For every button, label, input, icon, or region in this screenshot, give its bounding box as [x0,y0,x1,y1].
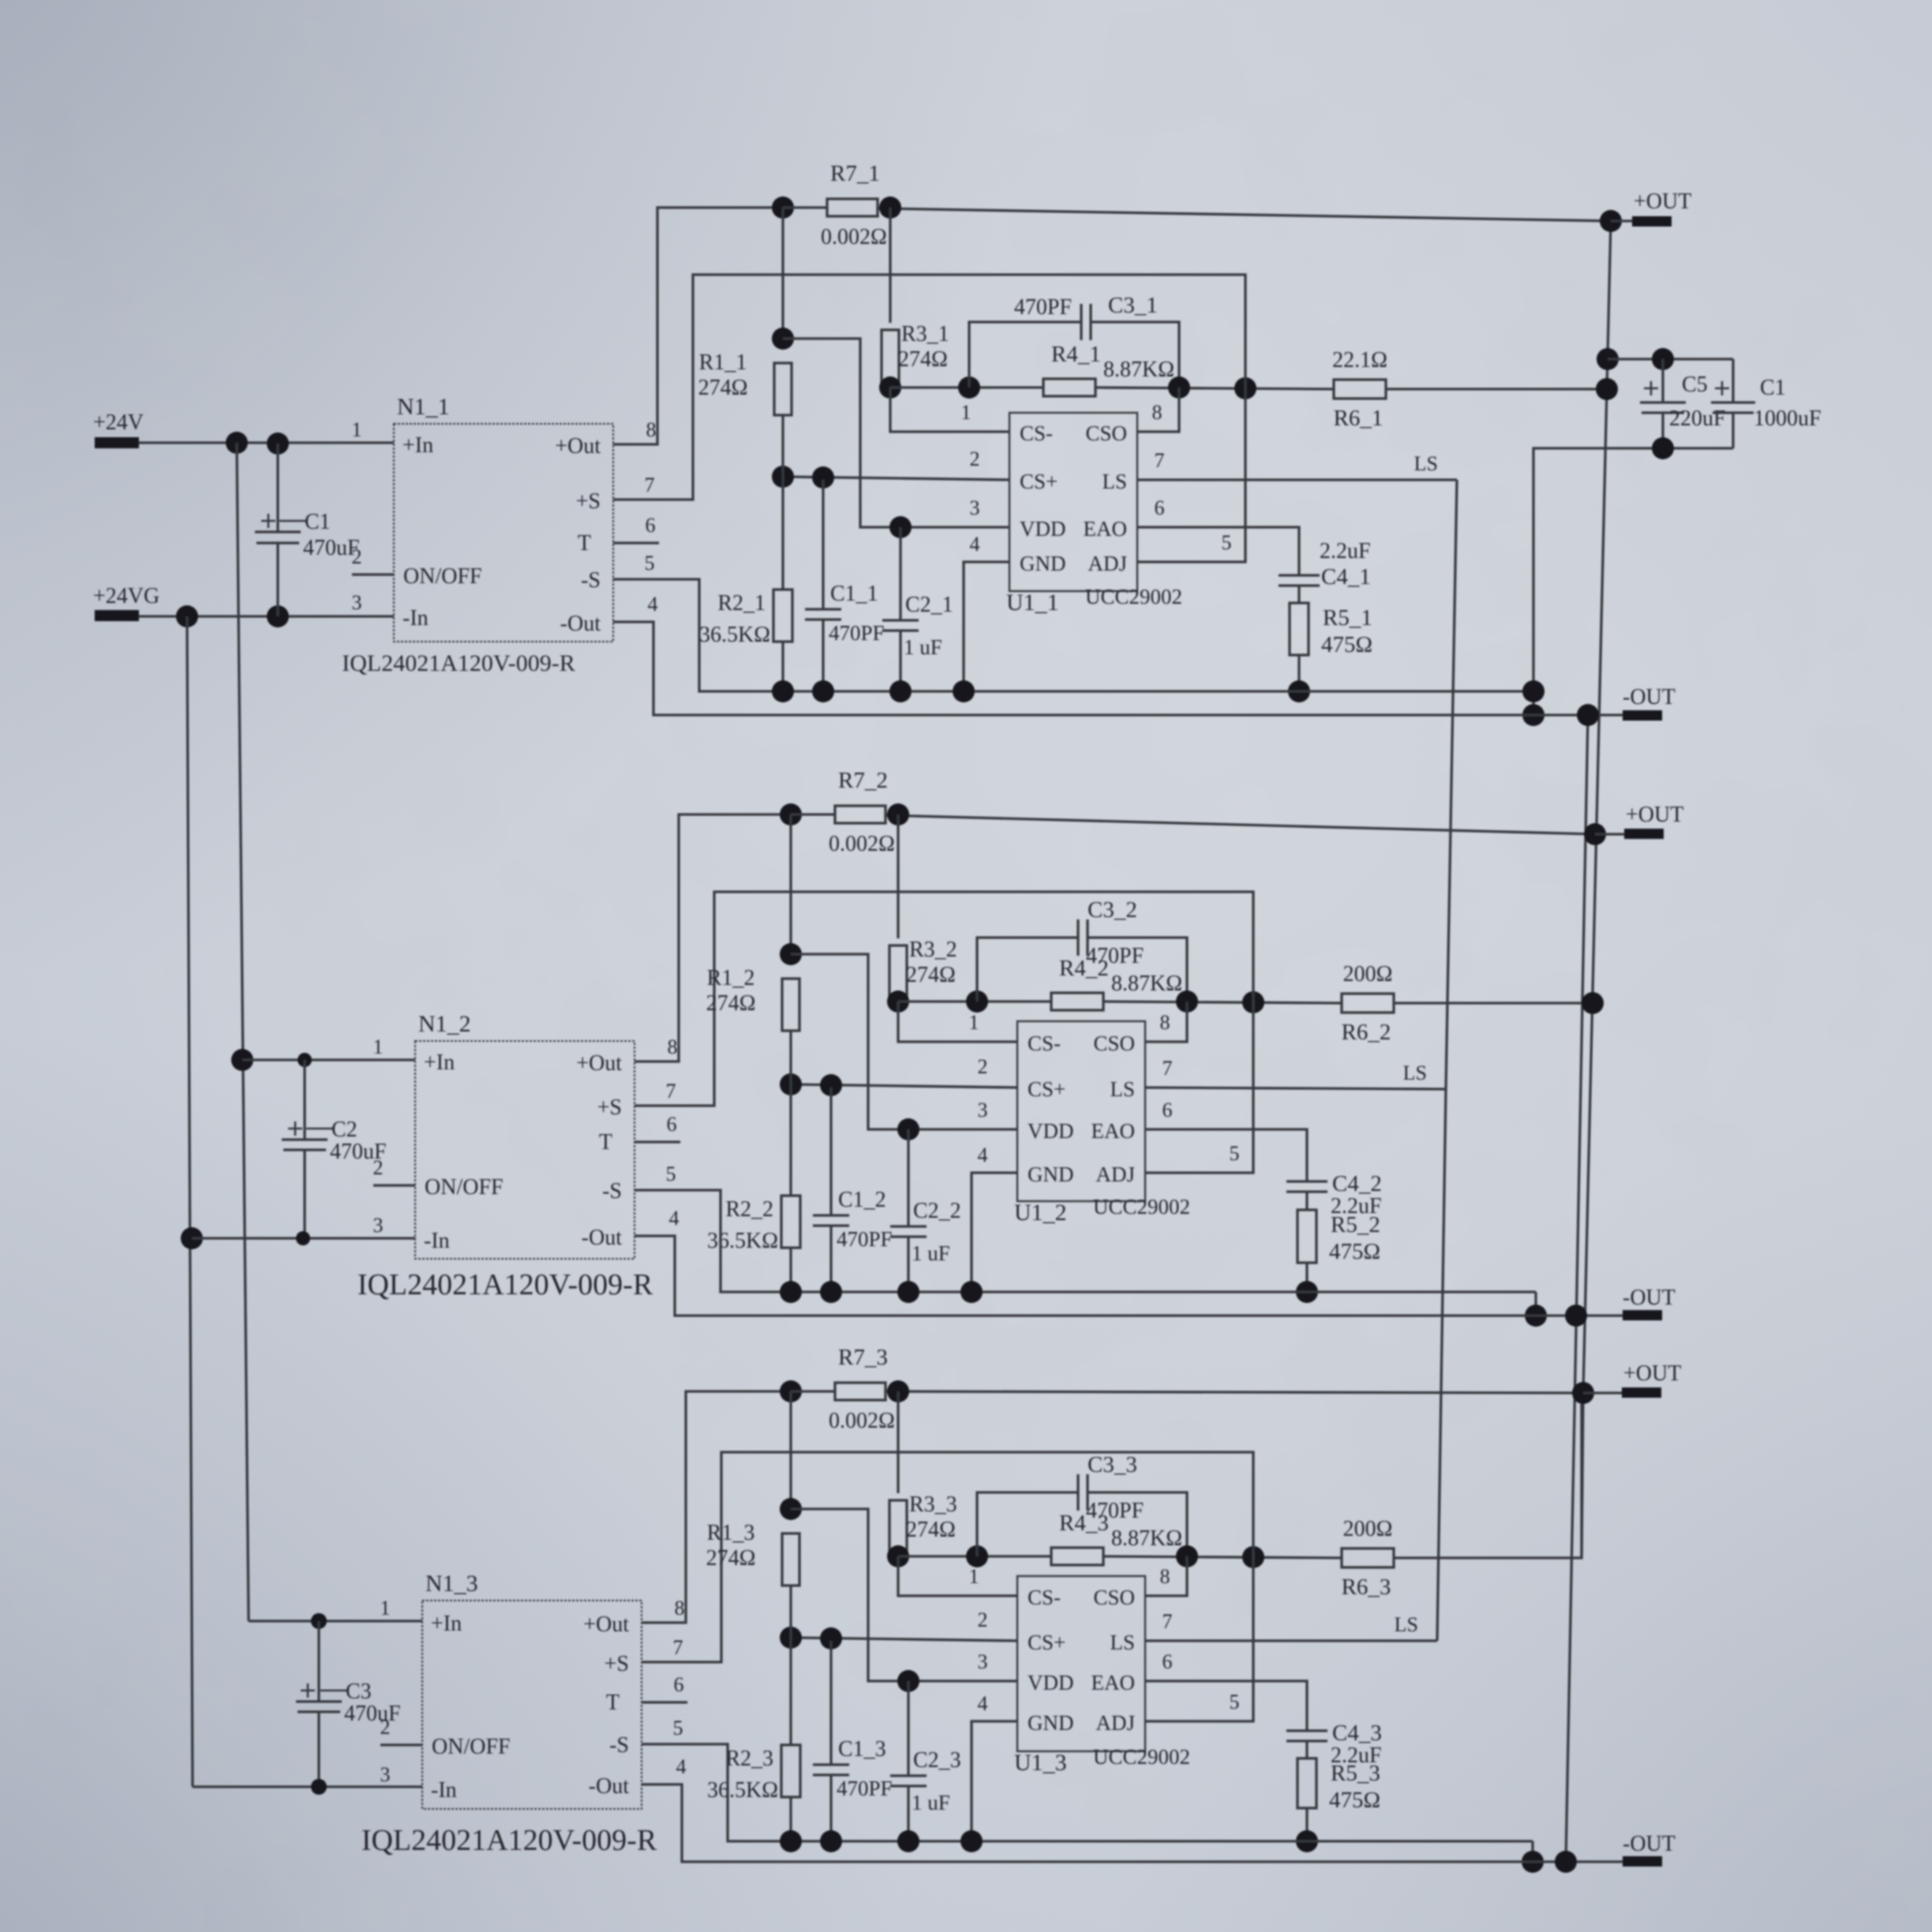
svg-text:3: 3 [380,1763,391,1786]
svg-text:274Ω: 274Ω [898,347,948,372]
svg-text:7: 7 [666,1080,676,1103]
node R5_1 ground junction [1288,680,1310,702]
capacitor C2 input 470uF [303,1060,305,1140]
resistor R2_1 [781,477,784,590]
svg-text:0.002Ω: 0.002Ω [829,1409,895,1433]
svg-text:1: 1 [380,1597,391,1619]
wire stage3 -In [193,1785,422,1788]
svg-text:2: 2 [978,1055,988,1078]
svg-text:C3: C3 [346,1679,372,1704]
resistor R2_2 [789,1084,792,1196]
svg-text:2.2uF: 2.2uF [1320,539,1371,563]
wire +24V to N1_1 +In pin1 [139,441,394,444]
node R3_1 bottom [879,376,901,399]
svg-text:R3_2: R3_2 [909,938,957,962]
node ADJ riser on R4 row stage3 [1242,1546,1264,1568]
svg-text:-In: -In [402,606,429,631]
svg-text:8: 8 [1152,401,1163,424]
svg-text:+In: +In [402,433,433,458]
resistor R1_3 [789,1391,792,1509]
svg-text:R1_2: R1_2 [707,966,755,990]
wire EAO pin stage3 [1145,1681,1307,1731]
resistor R4_1 [1043,379,1095,396]
svg-text:274Ω: 274Ω [698,376,748,400]
svg-text:3: 3 [978,1650,988,1673]
+OUT terminal stage3 [1572,1382,1594,1404]
svg-text:R1_3: R1_3 [707,1521,755,1545]
svg-text:1 uF: 1 uF [912,1241,950,1265]
svg-text:UCC29002: UCC29002 [1093,1745,1190,1769]
N1_1 ON/OFF pin2 stub [352,573,394,575]
svg-text:1: 1 [969,1565,979,1588]
svg-text:GND: GND [1028,1711,1074,1735]
svg-text:N1_3: N1_3 [425,1571,478,1597]
svg-text:5: 5 [1230,1690,1240,1713]
svg-text:VDD: VDD [1020,517,1066,541]
node C2_2 top [897,1118,919,1140]
svg-text:1 uF: 1 uF [912,1791,950,1814]
svg-text:-Out: -Out [589,1774,630,1799]
wire GND pin stage2 [972,1173,1017,1292]
svg-text:C2_3: C2_3 [913,1748,961,1773]
wire +24V bus down to stages 2 and 3 [237,443,249,1621]
node C1_1 top [812,466,834,489]
wire R5_1 to ground [1297,655,1300,691]
svg-text:T: T [606,1690,620,1715]
wire R7_3 row to +OUT [791,1390,835,1392]
svg-text:R7_3: R7_3 [838,1345,888,1370]
svg-text:VDD: VDD [1028,1671,1074,1694]
node C2 input cap bottom [296,1231,310,1245]
svg-text:C2_2: C2_2 [913,1199,961,1223]
svg-text:1: 1 [373,1035,384,1058]
N1_3 ON/OFF pin2 stub [380,1743,422,1746]
wire +24VG to N1_1 -In pin3 [139,615,394,617]
wire LS pin stage2 [1145,1088,1446,1089]
resistor R2_3 [789,1638,792,1745]
svg-text:C2: C2 [331,1118,358,1142]
node R6_2 output junction [1582,992,1604,1014]
svg-text:8.87KΩ: 8.87KΩ [1111,972,1182,996]
svg-text:ADJ: ADJ [1095,1711,1135,1735]
svg-text:0.002Ω: 0.002Ω [829,832,895,856]
svg-text:N1_1: N1_1 [397,394,450,420]
node R6_1 output junction [1596,378,1618,400]
svg-text:220uF: 220uF [1669,406,1726,431]
svg-text:2: 2 [978,1608,988,1631]
wire R4 node row stage2 [898,1000,1051,1002]
svg-text:ADJ: ADJ [1088,552,1127,575]
wire CSO pin8 stage3 [1145,1556,1187,1596]
wire CS- drop stage2 [898,1002,1017,1042]
svg-text:274Ω: 274Ω [706,1546,756,1571]
wire +Out pin8 riser stage1 [613,208,783,444]
svg-text:5: 5 [1222,531,1232,554]
svg-text:R5_2: R5_2 [1331,1212,1380,1237]
node R4_2 right [1176,990,1198,1013]
capacitor C1 input 470uF [276,444,279,532]
svg-text:3: 3 [373,1214,384,1237]
-OUT rail stage1 [613,622,1623,715]
svg-text:C1_2: C1_2 [838,1188,886,1212]
resistor R6_2 [1342,994,1394,1013]
wire CS+ row stage3 [791,1638,1017,1641]
svg-text:CS-: CS- [1028,1586,1061,1609]
wire LS pin stage3 [1145,1639,1437,1642]
svg-text:8: 8 [675,1597,685,1619]
wire output caps top branch [1608,358,1733,360]
op-amp U1_2 UCC29002 box [1017,1021,1145,1201]
wire R5_3 to ground [1305,1808,1308,1841]
svg-text:470uF: 470uF [344,1702,401,1726]
wire R3_2 riser [897,814,899,938]
svg-text:CSO: CSO [1093,1032,1135,1055]
svg-text:4: 4 [669,1207,680,1230]
svg-text:6: 6 [1163,1099,1173,1121]
svg-text:1: 1 [961,401,972,424]
svg-text:6: 6 [646,514,656,537]
wire R6_3 to +OUT bus [1394,1393,1582,1558]
svg-text:ON/OFF: ON/OFF [403,564,482,589]
capacitor C3_1 [1080,304,1082,340]
svg-text:CS-: CS- [1028,1032,1061,1055]
capacitor C1_2 [829,1088,832,1215]
node C5 bottom [1652,437,1674,459]
wire R4 node row stage3 [898,1555,1051,1557]
resistor R7_2 [835,806,885,823]
svg-text:C4_3: C4_3 [1332,1720,1382,1746]
svg-text:36.5KΩ: 36.5KΩ [707,1229,778,1253]
-OUT rail stage2 [635,1236,1623,1316]
node -OUT bus junction stage2 [1565,1305,1587,1327]
svg-text:R2_3: R2_3 [725,1747,773,1771]
capacitor C3 input 470uF [317,1621,320,1702]
svg-text:7: 7 [645,474,655,496]
node R4_1 right [1168,376,1190,399]
svg-text:2: 2 [380,1716,391,1739]
wire +Out pin8 riser stage3 [642,1391,791,1623]
svg-text:T: T [599,1130,612,1155]
-OUT rail stage3 [642,1784,1623,1862]
op-amp U1_1 UCC29002 box [1009,413,1137,591]
svg-text:R5_3: R5_3 [1331,1761,1380,1786]
node R7_1 right junction [879,197,901,219]
node R1_1 bottom [772,466,794,488]
svg-text:36.5KΩ: 36.5KΩ [699,623,770,647]
svg-text:CSO: CSO [1085,421,1127,445]
+24VG input terminal [95,610,139,621]
resistor R1_1 [781,208,784,339]
svg-text:LS: LS [1102,470,1127,493]
svg-text:U1_2: U1_2 [1014,1200,1067,1226]
node C5 branch on +OUT bus [1597,348,1619,370]
node C3 input cap top [311,1613,327,1629]
svg-text:+OUT: +OUT [1634,189,1691,214]
capacitor C1_1 [822,480,824,609]
ground to -OUT rail link stage2 [1534,1292,1537,1316]
node stage2 -In junction [181,1227,203,1249]
svg-text:6: 6 [667,1113,677,1136]
ground return wire stage2 [635,1190,1536,1292]
ground return wire stage1 [613,579,1533,691]
svg-text:+OUT: +OUT [1623,1361,1681,1386]
wire +24VG bus down to stages 2 and 3 [187,616,193,1787]
svg-text:-OUT: -OUT [1623,1286,1676,1310]
wire VDD branch stage2 [791,954,1017,1129]
svg-text:200Ω: 200Ω [1343,1517,1393,1541]
wire R3_2 to R4 node [897,992,899,1002]
node ADJ riser on R4 row stage1 [1234,377,1256,399]
svg-text:3: 3 [978,1099,988,1121]
svg-text:IQL24021A120V-009-R: IQL24021A120V-009-R [358,1268,653,1301]
svg-text:CS+: CS+ [1028,1077,1065,1101]
wire stage2 -In [192,1237,415,1239]
wire R6_2 to +OUT bus [1394,1002,1593,1004]
svg-text:8.87KΩ: 8.87KΩ [1111,1526,1182,1551]
svg-text:4: 4 [970,533,980,556]
svg-text:R4_1: R4_1 [1051,342,1101,367]
svg-text:ON/OFF: ON/OFF [432,1735,511,1759]
svg-text:3: 3 [970,496,980,519]
svg-text:R5_1: R5_1 [1323,605,1372,631]
svg-text:C2_1: C2_1 [905,593,953,617]
svg-text:1: 1 [969,1011,979,1034]
svg-text:R6_2: R6_2 [1342,1020,1391,1045]
svg-text:+Out: +Out [555,434,601,459]
svg-text:+24V: +24V [93,410,144,435]
svg-text:C1_3: C1_3 [838,1737,886,1762]
svg-text:C4_2: C4_2 [1332,1171,1382,1196]
node C2_1 top [889,516,912,538]
node C3_3 left [966,1545,988,1567]
resistor R3_1 [882,330,899,383]
svg-text:ON/OFF: ON/OFF [425,1175,504,1200]
wire EAO pin stage1 [1137,527,1299,575]
wire -OUT bus [1566,715,1588,1862]
wire R6_1 to +OUT bus [1386,388,1607,390]
svg-text:+S: +S [605,1652,629,1676]
capacitor C1_3 [829,1641,832,1765]
node ground junctions stage2 [780,1281,802,1303]
-OUT terminal stage3 [1623,1856,1662,1866]
node R4_3 right [1176,1545,1198,1567]
svg-text:1 uF: 1 uF [904,635,942,659]
wire +Out pin8 riser stage2 [635,814,791,1061]
-OUT terminal stage1 [1623,710,1662,721]
wire R3_1 riser [889,208,891,323]
svg-text:4: 4 [676,1755,687,1778]
svg-text:+OUT: +OUT [1626,803,1683,827]
svg-text:C5: C5 [1682,373,1708,397]
resistor R4_3 [1051,1548,1103,1565]
svg-text:C3_3: C3_3 [1088,1452,1137,1477]
wire CS+ row stage2 [791,1084,1017,1088]
node C1_3 top [820,1627,842,1649]
node R1_3 bottom [780,1627,802,1649]
svg-text:C3_1: C3_1 [1108,293,1158,318]
node stage2 +In junction [231,1049,253,1071]
node C3_1 left [958,376,980,399]
resistor R7_3 [835,1383,885,1400]
node R1_2 bottom [780,1073,802,1095]
svg-text:C4_1: C4_1 [1321,564,1371,590]
wire CSO pin8 stage1 [1137,388,1179,432]
op-amp U1_3 UCC29002 box [1017,1576,1145,1751]
svg-text:EAO: EAO [1091,1671,1136,1694]
svg-text:LS: LS [1403,1061,1427,1084]
svg-text:475Ω: 475Ω [1329,1788,1380,1813]
svg-text:+Out: +Out [583,1612,629,1637]
svg-text:R1_1: R1_1 [699,350,747,375]
node C1 input cap bottom [267,605,289,627]
resistor R5_2 [1297,1210,1316,1263]
wire C3_1 branch [969,322,1081,388]
svg-text:8: 8 [1160,1011,1170,1034]
svg-text:R3_3: R3_3 [909,1492,957,1517]
node R7_3 right junction [887,1380,909,1402]
node C2_3 top [897,1670,919,1692]
svg-text:R4_2: R4_2 [1059,956,1109,981]
svg-text:C1_1: C1_1 [830,582,878,606]
capacitor C4_2 [1286,1180,1327,1182]
node rail link stage3 [1522,1851,1544,1873]
svg-text:LS: LS [1110,1077,1135,1101]
svg-text:VDD: VDD [1028,1119,1074,1143]
svg-text:C3_2: C3_2 [1088,897,1137,923]
svg-text:IQL24021A120V-009-R: IQL24021A120V-009-R [342,650,575,676]
resistor R6_1 [1334,380,1386,399]
svg-text:274Ω: 274Ω [706,991,756,1016]
svg-text:-OUT: -OUT [1623,1832,1676,1856]
node rail link stage2 [1525,1305,1547,1327]
svg-text:22.1Ω: 22.1Ω [1332,348,1387,373]
svg-text:274Ω: 274Ω [906,963,956,987]
+OUT terminal stage2 [1584,823,1606,845]
svg-text:-S: -S [609,1733,629,1758]
svg-text:4: 4 [978,1144,988,1166]
wire R7_2 row to +OUT [791,813,835,815]
svg-text:LS: LS [1414,452,1438,475]
svg-text:274Ω: 274Ω [906,1518,956,1542]
resistor R3_3 [889,1500,907,1552]
wire EAO pin stage2 [1145,1129,1307,1181]
svg-text:U1_1: U1_1 [1006,590,1059,616]
node R3_2 bottom [887,990,909,1013]
svg-text:-Out: -Out [560,612,601,636]
resistor R4_2 [1051,993,1103,1010]
wire CS- drop stage3 [898,1556,1017,1596]
power module N1_3 box [422,1601,642,1809]
ground to -OUT rail link stage3 [1531,1841,1533,1862]
svg-text:2: 2 [373,1156,384,1179]
svg-text:8: 8 [668,1035,678,1058]
svg-text:7: 7 [673,1636,683,1659]
svg-text:3: 3 [352,591,362,614]
+24V input terminal [95,437,139,448]
wire R3_1 to R4 node [889,378,891,388]
svg-text:LS: LS [1110,1631,1135,1654]
node R7_1 left junction [772,197,794,219]
svg-text:1: 1 [352,418,362,441]
power module N1_2 box [415,1041,635,1259]
svg-text:R7_2: R7_2 [838,768,888,793]
node +24VG bus junction [176,605,198,627]
svg-text:U1_3: U1_3 [1014,1750,1067,1776]
power module N1_1 box [394,424,613,642]
node C3 input cap bottom [311,1779,327,1795]
node +24V bus junction [226,432,248,454]
svg-text:7: 7 [1163,1057,1173,1080]
svg-text:R6_3: R6_3 [1342,1574,1391,1600]
-OUT terminal stage2 [1623,1310,1662,1320]
svg-text:8: 8 [646,418,657,441]
capacitor C2_3 [907,1681,909,1776]
node C1_2 top [820,1074,842,1096]
node rail link stage1 [1522,704,1544,726]
wire +S return stage1 [613,275,1245,562]
svg-text:IQL24021A120V-009-R: IQL24021A120V-009-R [361,1824,657,1857]
node R5_3 ground junction [1296,1830,1318,1852]
+OUT terminal stage1 [1600,210,1622,232]
node -OUT bus junction stage1 [1577,704,1599,726]
svg-text:GND: GND [1028,1163,1074,1186]
capacitor C5 220uF [1661,359,1664,402]
svg-text:-S: -S [602,1179,622,1204]
N1_2 ON/OFF pin2 stub [373,1184,415,1186]
capacitor C4_1 [1279,574,1320,576]
N1_2 T pin6 stub [635,1140,680,1143]
node ground junctions stage1 [772,680,794,702]
wire GND pin stage1 [964,562,1009,691]
svg-text:5: 5 [666,1163,676,1185]
svg-text:0.002Ω: 0.002Ω [821,225,887,249]
svg-text:475Ω: 475Ω [1329,1239,1380,1264]
svg-text:+In: +In [424,1050,455,1075]
svg-text:6: 6 [1155,496,1165,519]
svg-text:N1_2: N1_2 [418,1011,471,1037]
svg-text:R7_1: R7_1 [830,161,880,186]
node ADJ riser on R4 row stage2 [1242,991,1264,1013]
capacitor C2_2 [907,1129,909,1226]
ground return wire stage3 [642,1744,1533,1841]
svg-text:+24VG: +24VG [93,584,159,608]
capacitor C2_1 [899,527,901,620]
wire +S return stage3 [642,1452,1253,1721]
svg-text:CS+: CS+ [1020,470,1058,493]
wire stage3 +In [249,1619,422,1622]
node C5 top [1652,348,1674,370]
N1_3 T pin6 stub [642,1701,687,1703]
node ground junctions stage3 [780,1830,802,1852]
svg-text:CS+: CS+ [1028,1631,1065,1654]
svg-text:CS-: CS- [1020,421,1053,445]
svg-text:UCC29002: UCC29002 [1085,585,1182,608]
node R5_2 ground junction [1296,1281,1318,1303]
node R7_2 right junction [887,803,909,826]
wire VDD branch stage1 [783,339,1009,527]
wire C3_2 branch [977,938,1078,1002]
wire R3_3 riser [897,1391,899,1493]
svg-text:4: 4 [978,1692,988,1715]
svg-text:-S: -S [581,568,601,593]
svg-text:470PF: 470PF [837,1227,893,1251]
wire +OUT bus [1582,221,1611,1558]
wire CS+ row stage1 [783,477,1009,480]
resistor R6_3 [1342,1548,1394,1567]
node R7_3 left junction [780,1380,802,1402]
svg-text:C1: C1 [1760,376,1786,400]
svg-text:6: 6 [674,1673,684,1696]
